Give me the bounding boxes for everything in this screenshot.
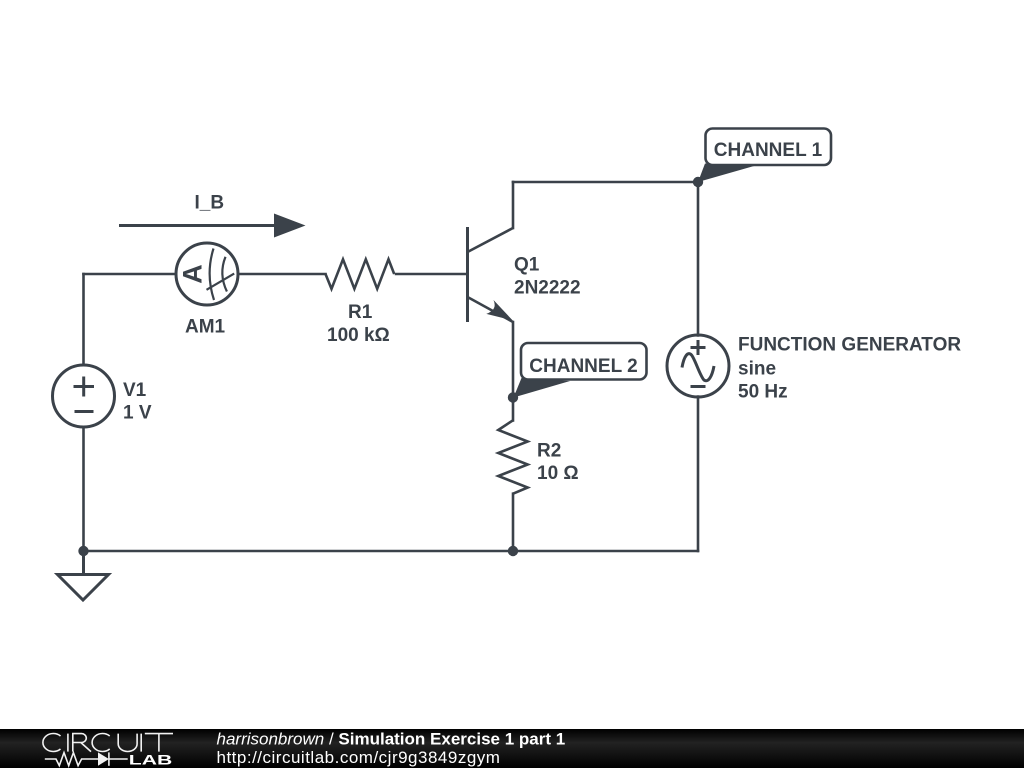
junction dot channel 2 (508, 392, 518, 402)
resistor R2 (498, 420, 527, 493)
function generator V2 (667, 335, 729, 397)
wire R2 bottom (512, 494, 515, 551)
wire top horizontal (513, 181, 698, 184)
svg-text:FUNCTION GENERATOR: FUNCTION GENERATOR (738, 335, 961, 356)
svg-text:CHANNEL 2: CHANNEL 2 (529, 356, 637, 377)
label R2 value (537, 441, 579, 485)
svg-text:1 V: 1 V (123, 403, 152, 424)
svg-text:2N2222: 2N2222 (514, 278, 581, 299)
wire function generator bottom to ground rail (697, 397, 700, 552)
svg-text:10 Ω: 10 Ω (537, 463, 579, 484)
svg-text:LAB: LAB (129, 752, 173, 767)
wire bottom rail (84, 550, 699, 553)
wire main horizontal left (to ammeter) (84, 273, 177, 276)
junction dot ground node (78, 546, 88, 556)
junction dot R2 bottom (508, 546, 518, 556)
svg-text:I_B: I_B (195, 193, 225, 214)
svg-text:R1: R1 (348, 302, 373, 323)
svg-text:AM1: AM1 (185, 317, 226, 338)
svg-text:A: A (178, 264, 208, 284)
label Q1 value (514, 255, 581, 299)
svg-text:R2: R2 (537, 441, 561, 462)
junction dot channel 1 (693, 177, 703, 187)
svg-text:V1: V1 (123, 380, 147, 401)
ground (58, 551, 109, 600)
logo resistor + diode (45, 752, 128, 765)
svg-text:Q1: Q1 (514, 255, 540, 276)
svg-text:100 kΩ: 100 kΩ (327, 325, 390, 346)
wire Q1 collector up (512, 182, 515, 228)
logo CIRCUIT lettering (43, 734, 173, 752)
svg-text:CHANNEL 1: CHANNEL 1 (714, 140, 823, 161)
node CHANNEL 2 callout (514, 343, 647, 398)
svg-text:sine: sine (738, 359, 776, 380)
resistor R1 (326, 259, 395, 289)
wire Q1 emitter down to R2 (512, 322, 515, 421)
wire right vertical (to function generator top) (697, 182, 700, 336)
svg-text:50 Hz: 50 Hz (738, 382, 788, 403)
svg-text:harrisonbrown / Simulation Exe: harrisonbrown / Simulation Exercise 1 pa… (217, 730, 566, 749)
label function generator (738, 335, 961, 403)
wire left vertical bottom (V1 bottom to ground wire) (82, 428, 85, 552)
transistor Q1 emitter arrow (486, 300, 512, 320)
wire R1 to Q1 base (396, 273, 467, 276)
wire ammeter to R1 (238, 273, 326, 276)
label R1 value (327, 302, 390, 346)
ammeter AM1 (176, 243, 238, 305)
transistor Q1 (468, 227, 514, 322)
voltage source V1 (53, 365, 115, 427)
svg-text:http://circuitlab.com/cjr9g384: http://circuitlab.com/cjr9g3849zgym (217, 748, 501, 767)
current label I_B arrow (119, 193, 306, 238)
node CHANNEL 1 callout (698, 129, 831, 183)
wire left vertical top (V1 top to main wire) (82, 274, 85, 365)
label V1 value (123, 380, 152, 424)
